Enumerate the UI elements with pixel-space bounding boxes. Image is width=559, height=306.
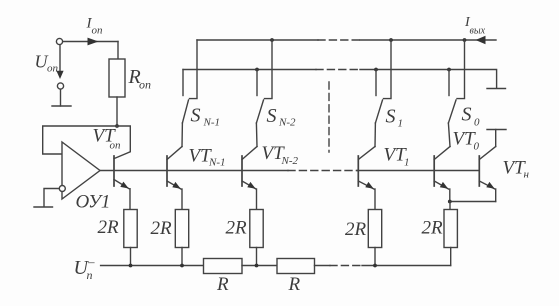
wire to ground bbox=[60, 89, 62, 106]
bottom bus dashed bbox=[330, 265, 362, 267]
svg-text:S: S bbox=[267, 105, 277, 127]
node ground bus S N-2 bbox=[255, 68, 259, 72]
svg-text:–: – bbox=[87, 254, 95, 269]
transistor VT0 bbox=[434, 147, 450, 202]
svg-text:вых: вых bbox=[470, 26, 486, 37]
resistor 2R #5 bbox=[444, 210, 457, 248]
arrow Ion bbox=[88, 38, 99, 46]
dashed continuation vertical bbox=[328, 82, 330, 152]
svg-text:оп: оп bbox=[110, 140, 122, 152]
base bus wire dashed bbox=[288, 170, 357, 172]
ground bus solid right bbox=[360, 70, 497, 89]
ground bus dashed bbox=[316, 69, 360, 71]
wire Rop to node bbox=[116, 97, 118, 126]
bottom bus Un wire bbox=[101, 265, 204, 267]
svg-text:оп: оп bbox=[47, 63, 59, 75]
svg-text:0: 0 bbox=[474, 141, 480, 153]
transistor VTop bbox=[114, 156, 130, 210]
op-amp inverting bubble bbox=[59, 186, 65, 192]
node junction bbox=[115, 124, 119, 128]
terminal input top-left bbox=[56, 38, 62, 44]
wire after R2 bbox=[315, 265, 331, 267]
switch S0 bbox=[448, 40, 464, 147]
wire Uop vertical bbox=[59, 45, 61, 72]
terminal lower bbox=[57, 83, 63, 89]
resistor 2R #1 bbox=[124, 210, 137, 248]
wire 2R4 bottom bbox=[374, 248, 376, 266]
transistor VT1 bbox=[358, 147, 375, 210]
node ground bus S0 bbox=[447, 68, 451, 72]
resistor Rop bbox=[109, 59, 125, 97]
wire feedback to op-amp input bbox=[43, 126, 117, 154]
svg-text:ОУ1: ОУ1 bbox=[76, 192, 111, 213]
svg-text:оп: оп bbox=[139, 78, 151, 92]
switch S N-1 bbox=[182, 40, 197, 147]
base bus wire solid bbox=[100, 170, 288, 172]
wire 2R3 bottom bbox=[256, 248, 258, 266]
svg-text:п: п bbox=[87, 268, 93, 282]
resistor 2R #3 bbox=[250, 210, 263, 248]
switch S1 bbox=[375, 40, 391, 147]
node top bus S1 bbox=[389, 38, 393, 42]
svg-text:0: 0 bbox=[474, 117, 480, 129]
wire down to Rop bbox=[117, 42, 119, 60]
resistor 2R #4 bbox=[368, 210, 381, 248]
base bus wire right bbox=[357, 170, 479, 172]
svg-text:2R: 2R bbox=[226, 218, 248, 239]
wire inverting input to ground bbox=[44, 189, 59, 207]
ground bus wire solid left bbox=[183, 69, 316, 71]
svg-text:N-1: N-1 bbox=[208, 157, 226, 169]
node bottom 2R4 bbox=[373, 264, 377, 268]
top bus dashed bbox=[318, 39, 360, 41]
svg-text:1: 1 bbox=[404, 157, 410, 169]
wire 2R2 bottom bbox=[181, 248, 183, 266]
wire between R1 R2 bbox=[242, 265, 277, 267]
svg-text:S: S bbox=[462, 104, 472, 126]
svg-text:оп: оп bbox=[92, 25, 104, 37]
switch S N-2 bbox=[256, 40, 272, 147]
wire node to 2R5 bbox=[449, 202, 451, 210]
svg-text:2R: 2R bbox=[345, 219, 367, 240]
top bus solid right bbox=[360, 39, 496, 41]
resistor R #2 bbox=[277, 259, 315, 274]
wire emitters VT0-VTn join bbox=[450, 201, 496, 203]
svg-text:1: 1 bbox=[398, 118, 404, 130]
svg-text:2R: 2R bbox=[422, 218, 444, 239]
arrow Iout bbox=[476, 36, 486, 45]
svg-text:2R: 2R bbox=[98, 217, 120, 238]
transistor VTn bbox=[479, 130, 495, 202]
node bottom 2R1 bbox=[129, 264, 133, 268]
resistor R #1 bbox=[204, 259, 243, 274]
svg-text:N-2: N-2 bbox=[278, 117, 296, 129]
svg-text:S: S bbox=[386, 106, 396, 128]
svg-text:2R: 2R bbox=[151, 218, 173, 239]
wire 2R1 bottom bbox=[130, 248, 132, 266]
node bottom 2R3 bbox=[255, 264, 259, 268]
svg-text:R: R bbox=[216, 274, 229, 295]
resistor 2R #2 bbox=[175, 210, 188, 248]
arrow Uop bbox=[56, 71, 63, 79]
op-amp U1 triangle bbox=[62, 142, 100, 199]
transistor VT N-1 bbox=[167, 147, 182, 210]
collector terminal bar VTn bbox=[487, 129, 506, 131]
svg-text:н: н bbox=[524, 169, 530, 181]
node top bus S0 bbox=[463, 38, 467, 42]
svg-text:S: S bbox=[191, 105, 201, 127]
node ground bus S1 bbox=[374, 68, 378, 72]
wire Ion horizontal bbox=[63, 41, 118, 43]
ground bar op-amp bbox=[34, 206, 53, 208]
ground bar right bbox=[487, 88, 506, 90]
transistor VT N-2 bbox=[242, 147, 257, 210]
wire 2R5 bottom bbox=[450, 248, 452, 266]
svg-text:N-1: N-1 bbox=[203, 117, 221, 129]
ground bar left-top bbox=[52, 105, 71, 107]
wire node to VTop collector bbox=[114, 126, 130, 159]
node bottom 2R2 bbox=[180, 264, 184, 268]
bottom bus right bbox=[362, 265, 451, 267]
top bus Iout solid left bbox=[197, 39, 318, 41]
node emitter join bbox=[448, 200, 452, 204]
svg-text:N-2: N-2 bbox=[281, 155, 299, 167]
node top bus S N-2 bbox=[270, 38, 274, 42]
svg-text:R: R bbox=[288, 274, 301, 295]
